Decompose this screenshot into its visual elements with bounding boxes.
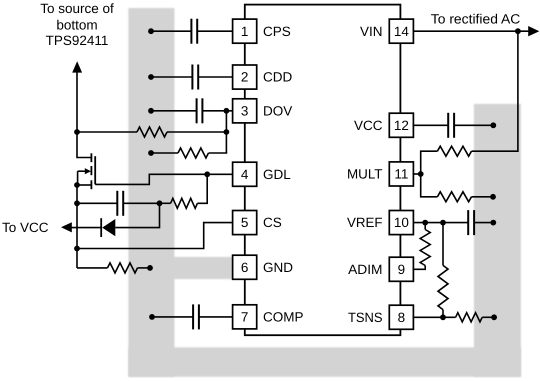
- junction: MULT node: [418, 171, 424, 177]
- wire: VCC arrow to diode D1 cathode: [71, 227, 101, 229]
- wire: resistor R7 to pin 9 ADIM: [413, 266, 425, 270]
- wire: diode D1 anode up to C4/R3 node: [115, 203, 159, 227]
- junction: C4 / D1 / R3 node: [157, 200, 163, 206]
- svg-text:VIN: VIN: [360, 24, 383, 39]
- wire: pin 14 VIN to rectified AC node: [413, 30, 528, 32]
- wire: resistor R2 to DOV branch corner: [209, 152, 228, 154]
- svg-text:5: 5: [241, 215, 249, 230]
- capacitor C5 (COMP): [192, 304, 194, 329]
- node: COMP external terminal dot: [149, 314, 155, 320]
- pin 11 square: [389, 162, 413, 186]
- diode D1 cathode bar: [100, 218, 102, 237]
- node: TSNS terminal dot: [491, 314, 497, 320]
- wire: VREF branch down to resistor R8v: [442, 223, 444, 266]
- pin 6 square: [233, 255, 257, 279]
- highlighted current path: bottom gray band: [128, 347, 521, 376]
- wire: left rail (source down to GND row): [76, 185, 78, 268]
- svg-text:To VCC: To VCC: [2, 220, 49, 235]
- wire: resistor R3 up to GDL node: [197, 174, 207, 203]
- wire: CPS dot to capacitor C1: [151, 30, 191, 32]
- wire: resistor R5 to MULT node: [421, 151, 438, 174]
- svg-text:11: 11: [394, 167, 408, 182]
- wire: pin 11 MULT to node: [413, 173, 420, 175]
- wire: vertical DOV branch: [225, 111, 227, 153]
- resistor R5 (VIN to MULT): [437, 146, 471, 156]
- junction: VREF / R7 divider: [422, 220, 428, 226]
- pin 7 square: [233, 305, 257, 329]
- node: R2 external terminal dot: [148, 150, 154, 156]
- junction: rail / CS row: [74, 246, 80, 252]
- svg-text:VCC: VCC: [354, 118, 383, 133]
- svg-text:CPS: CPS: [263, 24, 291, 39]
- node: R6 terminal dot: [490, 194, 496, 200]
- wire: resistor R8v to TSNS row: [442, 310, 444, 318]
- svg-text:6: 6: [241, 260, 249, 275]
- wire: DOV dot to capacitor C3: [151, 110, 197, 112]
- pin 5 square: [233, 211, 257, 235]
- node: CDD external terminal dot: [148, 74, 154, 80]
- junction: source / left rail: [74, 182, 80, 188]
- wire: pin 8 TSNS to resistor R9h: [413, 316, 455, 318]
- wire: pin 10 VREF to capacitor C7: [413, 222, 468, 224]
- capacitor C1 (CPS): [190, 19, 192, 44]
- svg-text:7: 7: [241, 310, 249, 325]
- wire: Q1 body tie to source: [77, 171, 79, 185]
- wire: CDD dot to capacitor C2: [151, 76, 192, 78]
- junction: TSNS / R8v node: [440, 314, 446, 320]
- wire: resistor R1 to DOV branch: [167, 131, 226, 133]
- svg-text:12: 12: [394, 118, 409, 133]
- resistor R8v (VREF to TSNS, vertical): [438, 265, 448, 309]
- svg-text:bottom: bottom: [56, 17, 97, 32]
- wire: dot to resistor R2: [151, 152, 178, 154]
- node: GND row terminal dot: [147, 265, 153, 271]
- pin 14 square: [389, 19, 413, 43]
- diode D1 (pointing left): [102, 219, 115, 236]
- svg-text:GDL: GDL: [263, 167, 291, 182]
- arrow: To VCC (left): [61, 222, 72, 232]
- junction: DOV node at pin 3 wire: [224, 108, 230, 114]
- wire: rail to capacitor C4: [77, 202, 118, 204]
- wire: rectified AC down to resistor R5 row: [472, 31, 518, 151]
- resistor R3 (gate series): [171, 198, 198, 208]
- junction: rectified AC node: [515, 28, 521, 34]
- resistor R4 (GND row): [108, 263, 138, 273]
- svg-text:To rectified AC: To rectified AC: [431, 11, 521, 26]
- svg-text:To source of: To source of: [40, 1, 114, 16]
- svg-text:VREF: VREF: [347, 215, 383, 230]
- capacitor C2 (CDD): [191, 65, 193, 90]
- transistor Q1 channel segments (N-MOSFET): [90, 153, 92, 162]
- wire: Q1 gate to GDL pin 4: [95, 174, 232, 184]
- wire: rail corner to resistor R4 (GND row): [77, 267, 108, 269]
- wire: pin 12 VCC to capacitor C6: [413, 124, 448, 126]
- svg-text:MULT: MULT: [347, 167, 383, 182]
- svg-text:3: 3: [241, 103, 249, 118]
- highlighted current path: gray stub toward pin 6 GND: [172, 257, 233, 279]
- capacitor C7 (VREF): [467, 210, 469, 235]
- arrow: to source of bottom TPS92411 (up): [72, 61, 82, 72]
- wire: arrow to MOSFET drain (left rail top): [77, 72, 91, 158]
- resistor R2 (row y=153): [178, 148, 208, 158]
- wire: left rail to resistor R1: [77, 131, 137, 133]
- svg-text:10: 10: [394, 215, 409, 230]
- node: DOV external terminal dot: [148, 108, 154, 114]
- svg-text:COMP: COMP: [263, 310, 304, 325]
- highlighted current path: right vertical gray band: [474, 104, 521, 377]
- wire: capacitor C2 to pin 2: [198, 76, 232, 78]
- IC U1 TPS92411 body outline: [245, 5, 401, 336]
- junction: VREF / R8 branch: [440, 220, 446, 226]
- svg-text:CDD: CDD: [263, 70, 292, 85]
- svg-text:14: 14: [394, 24, 410, 39]
- svg-text:4: 4: [241, 167, 249, 182]
- pin 12 square: [389, 113, 413, 137]
- junction: DOV branch / resistor R1 row: [224, 129, 230, 135]
- wire: Q1 source stub: [77, 184, 91, 186]
- junction: GDL node: [204, 171, 210, 177]
- pin 2 square: [233, 65, 257, 89]
- pin 8 square: [389, 305, 413, 329]
- svg-text:1: 1: [241, 24, 249, 39]
- resistor R7 (VREF to ADIM, vertical): [420, 230, 430, 266]
- svg-text:TPS92411: TPS92411: [46, 33, 109, 48]
- wire: capacitor C4 to junction: [123, 202, 159, 204]
- node: VREF terminal dot: [490, 220, 496, 226]
- pin 3 square: [233, 99, 257, 123]
- wire: resistor R4 to terminal dot: [138, 267, 151, 269]
- wire: resistor R9h to terminal dot: [482, 316, 494, 318]
- capacitor C4 (gate supply): [116, 191, 118, 216]
- pin 1 square: [233, 19, 257, 43]
- wire: capacitor C1 to pin 1: [197, 30, 232, 32]
- capacitor C6 (VCC): [447, 113, 449, 138]
- junction: left rail / R1 row: [74, 129, 80, 135]
- wire: junction to resistor R3: [160, 202, 171, 204]
- capacitor C3 (DOV): [196, 98, 198, 123]
- wire: COMP dot to capacitor C5: [152, 316, 193, 318]
- resistor R6 (MULT lower): [437, 192, 471, 202]
- wire: MULT node down to resistor R6: [421, 174, 438, 197]
- arrow: To rectified AC (right): [528, 26, 539, 36]
- transistor Q1 gate bar: [94, 156, 96, 184]
- transistor Q1 body arrow: [78, 170, 86, 172]
- wire: resistor R6 to terminal dot: [472, 196, 494, 198]
- wire: capacitor C6 to terminal dot: [454, 124, 493, 126]
- svg-text:GND: GND: [263, 260, 293, 275]
- resistor R9h (TSNS): [456, 313, 483, 322]
- wire: left rail to CS pin 5: [77, 223, 233, 249]
- svg-text:DOV: DOV: [263, 103, 292, 118]
- svg-text:9: 9: [398, 262, 406, 277]
- wire: capacitor C7 to terminal dot: [474, 222, 493, 224]
- pin 9 square: [389, 257, 413, 281]
- junction: rail / gate-cap row: [74, 200, 80, 206]
- wire: capacitor C3 to pin 3: [203, 110, 233, 112]
- resistor R1 (drain sense, row y=132): [137, 127, 167, 137]
- svg-text:TSNS: TSNS: [348, 310, 383, 325]
- svg-text:CS: CS: [263, 215, 282, 230]
- svg-text:ADIM: ADIM: [348, 262, 382, 277]
- wire: capacitor C5 to pin 7: [199, 316, 233, 318]
- svg-text:2: 2: [241, 70, 249, 85]
- svg-text:8: 8: [398, 310, 406, 325]
- wire: VREF node down to resistor R7: [424, 223, 426, 230]
- pin 10 square: [389, 211, 413, 235]
- node: CPS external terminal dot: [148, 28, 154, 34]
- pin 4 square: [233, 162, 257, 186]
- node: VCC terminal dot: [490, 122, 496, 128]
- highlighted current path: left vertical gray band: [128, 8, 174, 377]
